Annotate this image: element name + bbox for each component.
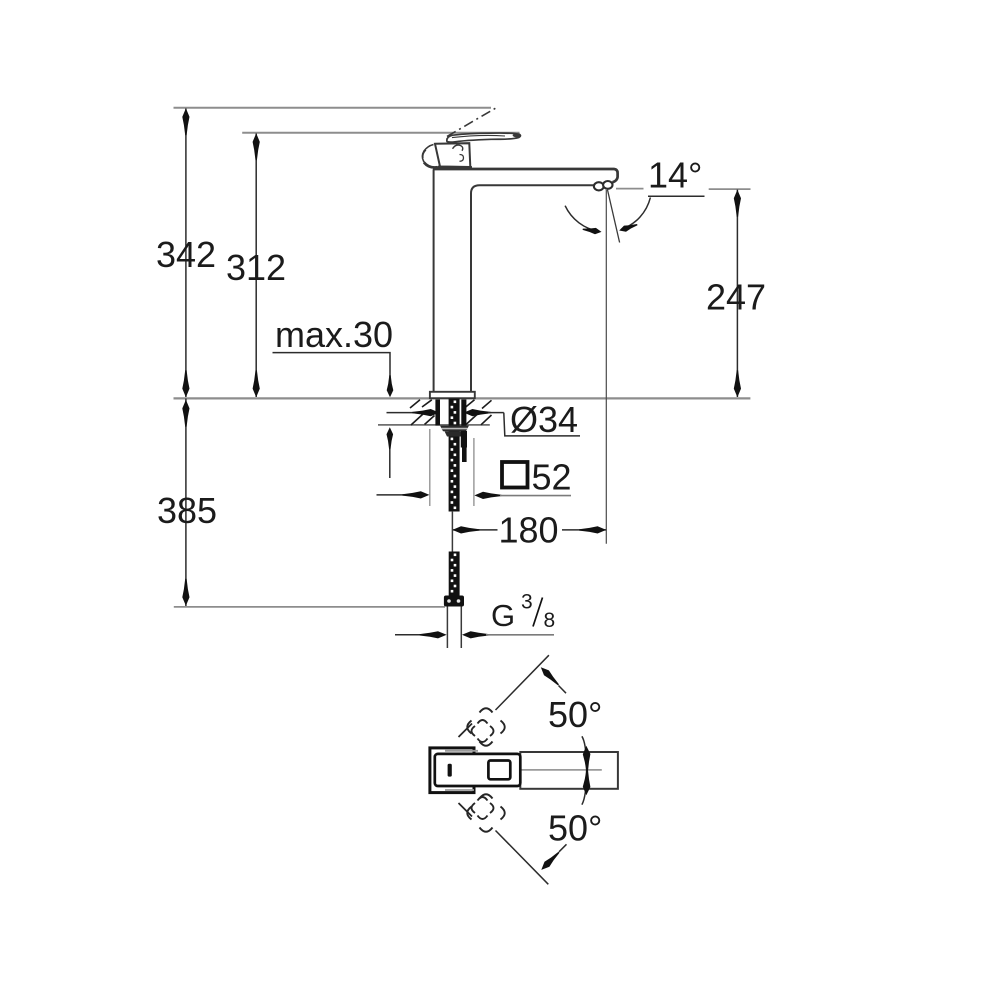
supply tails (446, 607, 448, 649)
side stub pipe (461, 431, 467, 448)
countertop deck line (174, 397, 751, 399)
spout top edge (433, 169, 618, 182)
plan: spout centerline (521, 769, 602, 771)
shank left nut bar (435, 400, 440, 426)
countertop bottom line (378, 424, 490, 426)
svg-text:3: 3 (521, 591, 533, 614)
plan: lever end square (488, 761, 510, 780)
plan: upper dashed handle squares (467, 708, 505, 746)
svg-text:G: G (491, 598, 515, 633)
svg-text:52: 52 (532, 456, 572, 497)
mounting washer nut (440, 426, 469, 432)
dimension square 52 (377, 494, 407, 496)
aerator (594, 182, 604, 190)
svg-text:342: 342 (156, 234, 216, 275)
plan: handle lever (435, 754, 521, 786)
plan: lever tick (448, 764, 452, 777)
faucet body column (433, 169, 435, 392)
swivel arc left segment (565, 206, 599, 232)
svg-text:50°: 50° (548, 694, 602, 735)
dimension 385 line (185, 399, 187, 607)
svg-text:385: 385 (157, 490, 217, 531)
base flange on deck (430, 392, 475, 398)
dimension 312 line (255, 134, 257, 398)
svg-text:14°: 14° (648, 155, 702, 196)
handle inner sketch marks (453, 145, 463, 151)
plan: upper 50deg line (496, 655, 549, 710)
tilted stream line 14deg (607, 189, 619, 243)
svg-text:8: 8 (544, 609, 556, 632)
dimension G3/8 (395, 634, 423, 636)
dimension diameter 34 (387, 412, 417, 414)
extension line top (342 level) (174, 107, 492, 109)
handle body (435, 143, 470, 167)
outlet level extension segments (616, 188, 644, 190)
tailpiece collar nut (444, 596, 464, 607)
svg-text:247: 247 (706, 276, 766, 317)
385 bottom extension line (174, 606, 445, 608)
14deg underline (648, 195, 705, 197)
square-52 extension lines (429, 429, 431, 506)
svg-text:312: 312 (226, 247, 286, 288)
swivel arc right segment (621, 198, 650, 230)
svg-text:Ø34: Ø34 (510, 399, 578, 440)
plan: spout (520, 752, 618, 789)
svg-text:50°: 50° (548, 808, 602, 849)
dimension 342 line (185, 109, 187, 398)
svg-text:max.30: max.30 (275, 314, 393, 355)
handle cap (sketchy) (422, 145, 441, 168)
shank right bar (461, 400, 466, 427)
dimension 247 line (736, 190, 738, 398)
dimension 180 (452, 529, 497, 531)
svg-text:180: 180 (499, 509, 559, 550)
raised lever phantom line (447, 107, 498, 137)
tailpiece thread (449, 552, 460, 596)
spout outlet axis extension (605, 190, 607, 544)
label square 52 (502, 462, 528, 488)
plan: lower dashed handle squares (467, 794, 505, 832)
max.30 leader (273, 353, 391, 392)
handle lever blade (447, 133, 521, 142)
countertop hatching (410, 400, 420, 408)
under-deck thickness arrow (max.30) (389, 447, 391, 478)
extension line handle level (312) (242, 132, 519, 134)
plan: base square (430, 748, 474, 793)
supply pipe (451, 511, 453, 552)
threaded shank tube (449, 399, 460, 512)
plan: angle reference line with arrows (582, 736, 587, 804)
plan: lower 50deg line (496, 831, 549, 885)
